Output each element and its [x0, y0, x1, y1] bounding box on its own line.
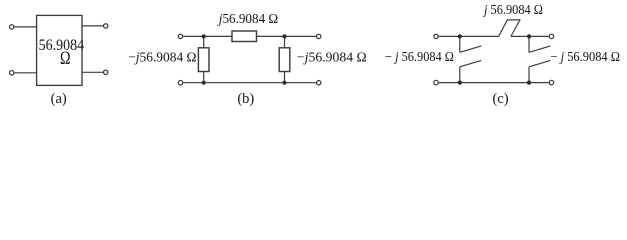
- port terminal bottom-right (a): [104, 70, 108, 74]
- wire top-left segment: [183, 35, 232, 37]
- svg-text:(c): (c): [492, 91, 508, 107]
- junction top-right (b): [282, 34, 286, 38]
- wire shunt-right lower: [284, 72, 286, 83]
- wire bottom: [183, 82, 316, 84]
- port terminal bottom-left (a): [10, 71, 14, 75]
- shunt open stub right: upper plate: [529, 46, 551, 52]
- port terminal top-right (b): [317, 34, 321, 38]
- shunt open stub right: lower plate: [529, 60, 551, 66]
- junction top-left (c): [458, 34, 462, 38]
- wire: [82, 25, 103, 27]
- wire shunt-left upper: [203, 36, 205, 47]
- port terminal bottom-left (c): [434, 80, 438, 84]
- port terminal bottom-right (b): [317, 81, 321, 85]
- shunt open stub right: lower lead: [528, 67, 530, 83]
- svg-text:(b): (b): [237, 91, 254, 107]
- series impedance box j56.9084: [232, 31, 257, 42]
- wire: [14, 72, 36, 74]
- svg-text:Ω: Ω: [60, 48, 71, 69]
- svg-text:−j56.9084 Ω: −j56.9084 Ω: [128, 51, 196, 66]
- port terminal bottom-left (b): [178, 81, 182, 85]
- shunt open stub left: lower plate: [460, 60, 482, 66]
- port terminal top-right (c): [549, 34, 553, 38]
- junction top-left (b): [202, 34, 206, 38]
- shunt open stub left: lower lead: [459, 67, 461, 83]
- wire: [82, 71, 103, 73]
- junction bottom-right (b): [282, 81, 286, 85]
- wire: [14, 26, 36, 28]
- shunt impedance box left: [198, 48, 209, 72]
- junction bottom-left (c): [458, 81, 462, 85]
- impedance box 56.9084 ohm: [37, 15, 82, 85]
- junction top-right (c): [527, 34, 531, 38]
- junction bottom-right (c): [527, 81, 531, 85]
- port terminal top-left (c): [434, 34, 438, 38]
- shunt open stub left: upper plate: [460, 46, 482, 52]
- shunt open stub left: upper lead: [459, 36, 461, 52]
- port terminal bottom-right (c): [549, 80, 553, 84]
- port terminal top-left (a): [10, 25, 14, 29]
- wire top-left segment: [439, 35, 499, 37]
- svg-text:(a): (a): [51, 91, 67, 107]
- svg-text:− j 56.9084 Ω: − j 56.9084 Ω: [385, 50, 454, 65]
- port terminal top-left (b): [178, 34, 182, 38]
- junction bottom-left (b): [202, 81, 206, 85]
- series short-circuited stub symbol: [499, 20, 520, 37]
- wire shunt-right upper: [284, 36, 286, 47]
- shunt impedance box right: [279, 48, 290, 72]
- wire shunt-left lower: [203, 72, 205, 83]
- wire top-right segment: [511, 35, 549, 37]
- shunt open stub right: upper lead: [528, 36, 530, 52]
- port terminal top-right (a): [104, 24, 108, 28]
- wire top-right segment: [257, 35, 316, 37]
- svg-text:j56.9084 Ω: j56.9084 Ω: [217, 12, 278, 27]
- wire bottom: [439, 82, 549, 84]
- svg-text:j 56.9084 Ω: j 56.9084 Ω: [482, 3, 543, 18]
- svg-text:−j56.9084 Ω: −j56.9084 Ω: [297, 51, 367, 66]
- svg-text:− j 56.9084 Ω: − j 56.9084 Ω: [551, 50, 621, 65]
